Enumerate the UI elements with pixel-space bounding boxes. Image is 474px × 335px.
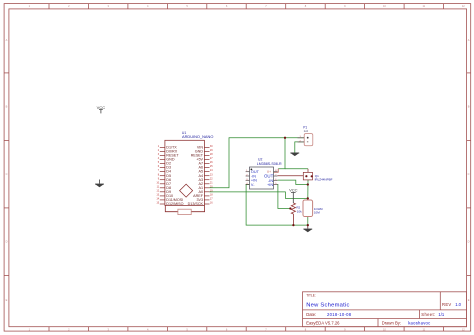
wire: R1 bottom to ground rail (307, 217, 309, 226)
junction node P1/drain tap (284, 137, 286, 139)
wire: Q1 source down to R1 (307, 180, 309, 200)
junction node -IN tap (307, 183, 309, 185)
svg-text:10k: 10k (297, 210, 302, 214)
svg-text:VCC: VCC (289, 188, 298, 193)
wire: U1 pin A0 to sense node (210, 192, 308, 199)
svg-text:E: E (6, 298, 8, 302)
svg-text:ARDUINO_NANO: ARDUINO_NANO (182, 134, 213, 139)
svg-text:D: D (468, 240, 470, 244)
power flag VCC (left) (97, 105, 106, 114)
svg-text:C: C (468, 172, 470, 176)
svg-text:New Schematic: New Schematic (306, 302, 350, 308)
svg-text:2018-10-08: 2018-10-08 (327, 312, 352, 317)
mcu module U1 ARDUINO_NANO (156, 131, 213, 206)
svg-text:B: B (468, 105, 470, 109)
ground (below R1) (303, 225, 312, 232)
wire: U2 OUT to Q1 gate (red) (277, 175, 303, 177)
svg-text:EasyEDA V5.7.26: EasyEDA V5.7.26 (306, 320, 340, 325)
svg-text:E: E (468, 298, 470, 302)
svg-text:Date:: Date: (306, 312, 316, 317)
svg-text:1/1: 1/1 (438, 312, 444, 317)
svg-text:D: D (6, 240, 8, 244)
wire: U2 -IN feedback to source node (277, 180, 307, 184)
wire: U1 pin A1 to connector P1 pin1 (210, 138, 305, 188)
wire: red stub to U2 V+ (274, 169, 279, 173)
svg-text:1.0: 1.0 (455, 302, 461, 307)
svg-text:D12/MISO: D12/MISO (166, 202, 183, 206)
svg-text:B: B (6, 105, 8, 109)
connector P1 (298, 126, 313, 146)
wire loop below U1 (D12 to D13 via resistor) (165, 205, 204, 211)
svg-text:D13/SCK: D13/SCK (188, 202, 204, 206)
svg-text:1x2: 1x2 (304, 129, 309, 133)
wire: R2 bottom to ground rail (292, 214, 294, 225)
junction node A0 sense (307, 197, 309, 199)
svg-text:+IN: +IN (267, 182, 273, 187)
wire: drain riser into Q1 (307, 169, 309, 173)
ground (left, floating) (95, 180, 104, 188)
svg-text:LM358S-S08-R: LM358S-S08-R (257, 162, 282, 166)
wire: U2 V- to ground rail (246, 184, 308, 225)
svg-text:IRLZ44NPBF: IRLZ44NPBF (315, 177, 333, 181)
svg-text:TITLE:: TITLE: (306, 294, 316, 298)
resistor R1 1OHM 10M (303, 200, 323, 217)
svg-text:Drawn By:: Drawn By: (382, 320, 401, 325)
junction node R2/gnd rail (292, 224, 294, 226)
op-amp U2 LM358S-SO8-R (246, 157, 282, 189)
svg-text:REV: REV (442, 302, 452, 307)
resistor R? (below U1) (178, 209, 191, 214)
svg-text:10M: 10M (314, 211, 320, 215)
svg-text:A: A (468, 38, 470, 42)
resistor R2 10k (291, 203, 302, 214)
svg-text:kaoshavoc: kaoshavoc (408, 320, 430, 325)
svg-text:Sheet:: Sheet: (421, 312, 435, 317)
power flag VCC (above R2) (289, 188, 298, 203)
wire: U2 +IN to R2 (277, 184, 290, 208)
svg-text:VCC: VCC (97, 105, 106, 110)
junction node +IN/R2 (289, 207, 291, 209)
svg-text:U2: U2 (258, 157, 262, 161)
transistor Q1 IRLZ44NPBF (303, 172, 332, 181)
svg-text:A: A (6, 38, 8, 42)
junction node R1/gnd rail (307, 224, 309, 226)
ground (below P1) (290, 153, 299, 157)
wire: P1 net down to Q1 drain / U2 V+ (278, 138, 285, 169)
svg-text:C: C (6, 172, 8, 176)
wire: P1 pin2 to ground (295, 142, 304, 153)
